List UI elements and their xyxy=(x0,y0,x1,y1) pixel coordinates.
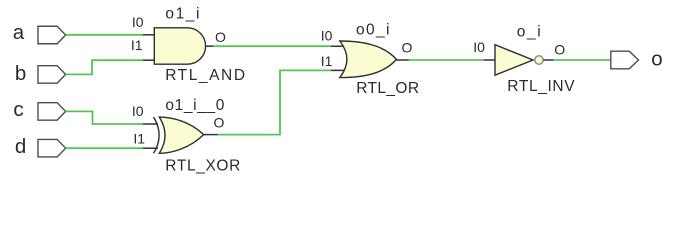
svg-text:O: O xyxy=(402,39,413,55)
xor-gate input stub I1 xyxy=(143,147,158,149)
and-gate input stub I0 xyxy=(143,34,155,36)
or-gate o0_i body xyxy=(340,41,397,78)
inverter o_i triangle xyxy=(495,45,533,75)
wire AND O to OR I0 xyxy=(213,45,330,47)
svg-text:o_i: o_i xyxy=(517,23,542,40)
svg-text:I0: I0 xyxy=(473,39,485,55)
inverter output stub O xyxy=(543,59,553,61)
svg-text:a: a xyxy=(13,21,25,44)
svg-text:RTL_AND: RTL_AND xyxy=(165,67,246,84)
svg-text:RTL_OR: RTL_OR xyxy=(356,80,419,97)
svg-text:o0_i: o0_i xyxy=(356,21,391,38)
inverter input stub I0 xyxy=(484,59,495,61)
wire XOR O to OR I1 xyxy=(218,70,331,134)
svg-text:d: d xyxy=(15,135,26,158)
input port a xyxy=(38,26,66,44)
svg-text:RTL_XOR: RTL_XOR xyxy=(165,157,241,174)
inverter bubble xyxy=(535,56,543,64)
svg-text:I0: I0 xyxy=(132,103,144,119)
xor-gate input stub I0 xyxy=(143,123,158,125)
input port c xyxy=(38,103,66,121)
xor-gate output stub O xyxy=(204,134,218,136)
output port o xyxy=(611,51,639,69)
xor-gate o1_i__0 outer arc xyxy=(154,117,160,153)
svg-text:I0: I0 xyxy=(321,28,333,44)
wire b to AND I1 xyxy=(66,60,143,74)
or-gate output stub O xyxy=(397,59,409,61)
and-gate output stub O xyxy=(206,45,214,47)
svg-text:c: c xyxy=(13,98,23,121)
svg-text:o1_i__0: o1_i__0 xyxy=(165,97,225,114)
svg-text:o1_i: o1_i xyxy=(165,6,201,23)
svg-text:I1: I1 xyxy=(131,37,143,53)
svg-text:O: O xyxy=(554,42,565,58)
svg-text:I1: I1 xyxy=(133,130,145,146)
wire d to XOR I1 xyxy=(66,147,143,149)
svg-text:O: O xyxy=(214,115,225,131)
or-gate input stub I1 xyxy=(331,69,347,71)
and-gate U o1_i body xyxy=(154,28,205,64)
svg-text:O: O xyxy=(215,29,226,45)
svg-text:o: o xyxy=(651,48,662,71)
wire c to XOR I0 xyxy=(66,111,143,124)
svg-text:b: b xyxy=(15,62,26,85)
wire INV O to port o xyxy=(554,59,611,61)
svg-text:I0: I0 xyxy=(132,14,144,30)
input port d xyxy=(38,139,66,157)
wire a to AND I0 xyxy=(66,34,143,36)
wire OR O to INV I0 xyxy=(409,59,484,61)
svg-text:I1: I1 xyxy=(321,53,333,69)
input port b xyxy=(38,66,66,84)
or-gate input stub I0 xyxy=(331,45,347,47)
and-gate input stub I1 xyxy=(143,59,155,61)
xor-gate o1_i__0 body xyxy=(159,117,203,153)
svg-text:RTL_INV: RTL_INV xyxy=(507,78,575,95)
